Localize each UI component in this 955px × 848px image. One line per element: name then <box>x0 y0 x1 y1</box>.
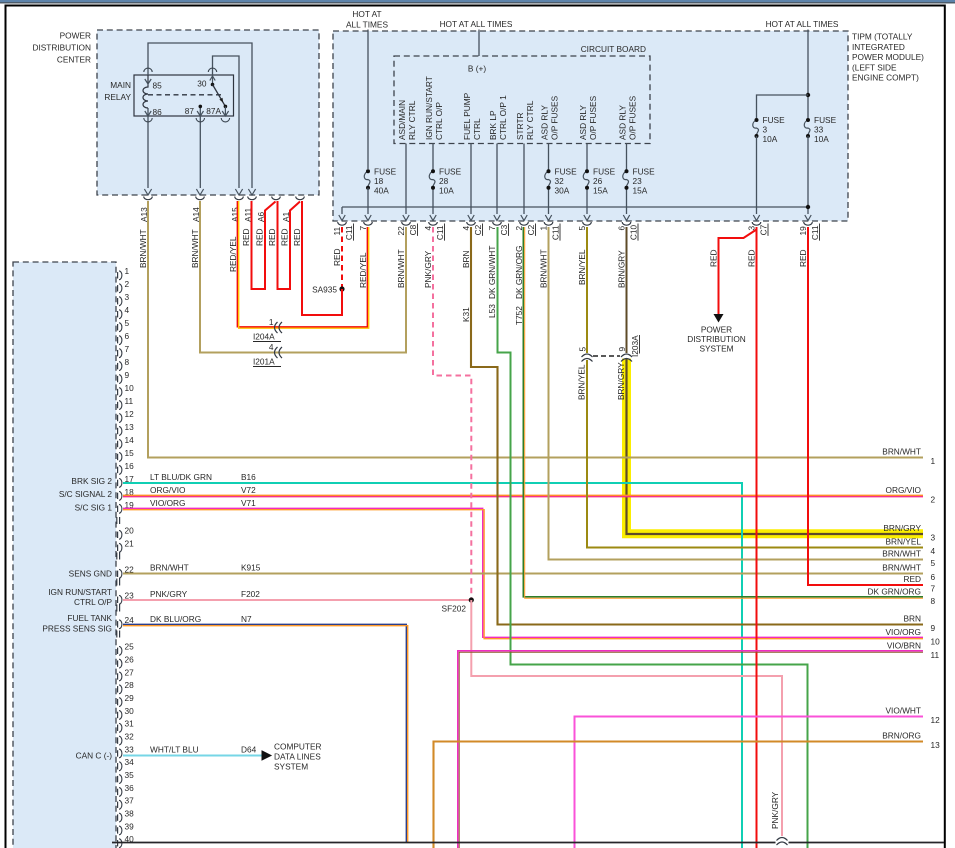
svg-text:85: 85 <box>153 81 163 91</box>
svg-text:(LEFT SIDE: (LEFT SIDE <box>852 62 897 72</box>
left connector pin 27 <box>117 673 119 679</box>
svg-text:WHT/LT BLU: WHT/LT BLU <box>150 745 199 755</box>
svg-text:V72: V72 <box>241 485 256 495</box>
main relay internal dashed link <box>148 94 222 96</box>
wire RED chain A6 <box>278 201 301 289</box>
svg-text:POWER: POWER <box>60 31 91 41</box>
svg-text:87A: 87A <box>206 106 221 116</box>
svg-text:IGN RUN/START: IGN RUN/START <box>424 76 434 140</box>
TIPM pin 7 connector C3 <box>494 215 500 221</box>
left connector pin 40 <box>117 840 119 846</box>
svg-text:PNK/GRY: PNK/GRY <box>150 589 188 599</box>
svg-text:3: 3 <box>125 292 130 302</box>
svg-text:RED/YEL: RED/YEL <box>228 236 238 272</box>
wire RED branch to power distribution system <box>719 230 757 315</box>
TIPM pin 2 connector C2 <box>521 215 527 221</box>
svg-text:STRTR: STRTR <box>515 112 525 140</box>
left connector pin 10 <box>117 389 119 395</box>
svg-text:SF202: SF202 <box>442 604 467 614</box>
svg-text:36: 36 <box>125 783 135 793</box>
svg-text:POWER: POWER <box>701 325 732 335</box>
wire A14 BRN/WHT to I201A <box>200 201 406 353</box>
splice SF202 <box>469 597 474 602</box>
svg-text:BRN/WHT: BRN/WHT <box>396 249 406 288</box>
svg-text:BRN/ORG: BRN/ORG <box>882 731 921 741</box>
svg-text:10: 10 <box>125 383 135 393</box>
PDC connector A15 <box>235 189 242 195</box>
wire relay 86 to A13 exit <box>147 108 149 188</box>
svg-text:RED: RED <box>798 249 808 267</box>
svg-text:28: 28 <box>125 680 135 690</box>
svg-text:L53: L53 <box>487 304 497 318</box>
main relay pin 87 <box>199 105 203 109</box>
svg-text:RED: RED <box>709 249 719 267</box>
wire relay 85 to A11 exit <box>148 43 252 188</box>
left connector pin 1 <box>117 272 119 278</box>
svg-text:ORG/VIO: ORG/VIO <box>886 485 922 495</box>
svg-text:PNK/GRY: PNK/GRY <box>423 250 433 288</box>
svg-text:9: 9 <box>931 623 936 633</box>
left connector pin 21 <box>117 545 119 551</box>
svg-text:VIO/ORG: VIO/ORG <box>150 498 186 508</box>
svg-text:HOT AT ALL TIMES: HOT AT ALL TIMES <box>766 19 839 29</box>
wire RED TIPM pin3 C7 to bottom <box>756 227 758 848</box>
svg-text:15A: 15A <box>633 186 648 196</box>
svg-text:C2: C2 <box>526 224 536 235</box>
svg-text:SA935: SA935 <box>312 285 337 295</box>
svg-text:13: 13 <box>931 740 941 750</box>
svg-text:INTEGRATED: INTEGRATED <box>852 42 905 52</box>
svg-text:O/P FUSES: O/P FUSES <box>588 95 598 140</box>
wire BRN/WHT TIPM pin1 C11 to edge wire 5 <box>549 227 924 560</box>
left connector pin 39 <box>117 827 119 833</box>
svg-text:10A: 10A <box>763 134 778 144</box>
svg-text:7: 7 <box>358 226 368 231</box>
svg-text:LT BLU/DK GRN: LT BLU/DK GRN <box>150 472 212 482</box>
circuit board box <box>394 56 650 144</box>
wire BRN K31 TIPM pin4 C2 to edge wire 9 <box>471 227 923 625</box>
wire relay 30 to A15 exit <box>213 56 240 188</box>
svg-text:5: 5 <box>577 226 587 231</box>
main relay pin 86 <box>144 118 152 122</box>
left connector tick marks <box>116 553 118 560</box>
svg-text:BRN/YEL: BRN/YEL <box>577 249 587 285</box>
wire fuse3 to pin 3 <box>756 136 758 214</box>
svg-text:22: 22 <box>396 226 406 236</box>
fuse 18 40A <box>364 171 370 187</box>
main relay switch blade <box>213 85 226 107</box>
fuse 32 30A <box>545 171 551 187</box>
TIPM pin 4 connector C2 <box>468 215 474 221</box>
left connector pin 8 <box>117 363 119 369</box>
left connector pin 37 <box>117 802 119 808</box>
svg-text:13: 13 <box>125 422 135 432</box>
left connector pin 16 <box>117 467 119 473</box>
svg-text:C3: C3 <box>499 224 509 235</box>
svg-text:C2: C2 <box>473 224 483 235</box>
svg-text:BRN/WHT: BRN/WHT <box>539 249 549 288</box>
left connector pin 28 <box>117 686 119 692</box>
svg-text:BRN/YEL: BRN/YEL <box>577 364 587 400</box>
left connector pin 18 <box>117 493 119 499</box>
svg-text:32: 32 <box>125 732 135 742</box>
left connector pin 3 <box>117 298 119 304</box>
svg-text:1: 1 <box>125 266 130 276</box>
svg-text:5: 5 <box>578 347 588 352</box>
svg-text:20: 20 <box>125 526 135 536</box>
svg-text:C11: C11 <box>810 225 820 240</box>
svg-text:DISTRIBUTION: DISTRIBUTION <box>32 43 91 53</box>
svg-text:11: 11 <box>125 396 134 406</box>
left connector pin 33 <box>117 750 119 756</box>
svg-text:29: 29 <box>125 693 135 703</box>
svg-text:TIPM (TOTALLY: TIPM (TOTALLY <box>852 32 913 42</box>
svg-text:ASD RLY: ASD RLY <box>618 105 628 140</box>
bus wire fuse18 to fuse33 <box>342 206 808 208</box>
svg-text:DK GRN/ORG: DK GRN/ORG <box>868 587 921 597</box>
wire fuse33 to pin 19 <box>807 136 809 214</box>
bottom PNK/GRY connector <box>777 838 788 841</box>
svg-text:12: 12 <box>125 409 135 419</box>
svg-text:BRN/YEL: BRN/YEL <box>885 537 921 547</box>
left connector pin 17 <box>117 480 119 486</box>
svg-text:18: 18 <box>374 176 384 186</box>
svg-text:6: 6 <box>617 226 627 231</box>
left connector pin 26 <box>117 660 119 666</box>
svg-text:CENTER: CENTER <box>57 55 91 65</box>
svg-text:4: 4 <box>125 305 130 315</box>
svg-text:RED: RED <box>332 248 342 266</box>
svg-text:S/C SIGNAL 2: S/C SIGNAL 2 <box>59 489 113 499</box>
svg-text:4: 4 <box>269 342 274 352</box>
svg-text:B (+): B (+) <box>468 64 486 74</box>
wire DK GRN/ORG T752 to edge wire 8 <box>523 227 923 597</box>
svg-text:FUSE: FUSE <box>763 115 786 125</box>
svg-text:VIO/ORG: VIO/ORG <box>886 627 922 637</box>
wire bus to pin 11 <box>341 207 343 214</box>
left connector pin 7 <box>117 350 119 356</box>
TIPM pin 7 <box>365 215 371 221</box>
wire RED chain A11 <box>252 201 276 289</box>
svg-text:7: 7 <box>931 584 936 594</box>
left connector pin 4 <box>117 311 119 317</box>
left connector pin 29 <box>117 699 119 705</box>
svg-text:FUEL PUMP: FUEL PUMP <box>462 92 472 140</box>
main relay K1 box <box>134 75 234 116</box>
left connector pin 30 <box>117 712 119 718</box>
wire SA935 to red chain <box>341 289 343 315</box>
svg-text:37: 37 <box>125 796 135 806</box>
left connector pin 5 <box>117 324 119 330</box>
svg-text:PNK/GRY: PNK/GRY <box>770 791 780 829</box>
svg-text:F202: F202 <box>241 589 260 599</box>
svg-text:ENGINE COMPT): ENGINE COMPT) <box>852 73 919 83</box>
svg-text:19: 19 <box>798 226 808 236</box>
svg-text:SENS GND: SENS GND <box>69 569 112 579</box>
wire VIO/WHT from bottom to edge wire 12 <box>575 717 924 848</box>
left connector pin 36 <box>117 789 119 795</box>
splice SA935 <box>339 286 344 291</box>
left connector pin 31 <box>117 725 119 731</box>
svg-text:23: 23 <box>633 176 643 186</box>
svg-text:BRN/GRY: BRN/GRY <box>617 250 627 288</box>
svg-text:SYSTEM: SYSTEM <box>699 344 733 354</box>
svg-text:25: 25 <box>125 642 135 652</box>
arrow power distribution system <box>714 314 724 323</box>
wire RED chain A1 to SA935 <box>302 201 343 315</box>
svg-text:9: 9 <box>617 347 627 352</box>
svg-text:ASD/MAIN: ASD/MAIN <box>397 100 407 140</box>
svg-text:RLY CTRL: RLY CTRL <box>407 100 417 140</box>
svg-text:39: 39 <box>125 821 135 831</box>
svg-text:BRN: BRN <box>903 614 921 624</box>
bottom module edge <box>112 842 776 844</box>
left connector pin 13 <box>117 428 119 434</box>
svg-text:FUSE: FUSE <box>555 167 578 177</box>
left connector pin 15 <box>117 454 119 460</box>
fuse 23 15A <box>623 171 629 187</box>
svg-text:30A: 30A <box>555 186 570 196</box>
left connector pin 14 <box>117 441 119 447</box>
svg-text:BRN/GRY: BRN/GRY <box>883 523 921 533</box>
svg-text:C11: C11 <box>344 225 354 240</box>
svg-text:BRN/WHT: BRN/WHT <box>882 563 921 573</box>
left connector pin 6 <box>117 337 119 343</box>
svg-text:33: 33 <box>814 125 824 135</box>
svg-text:10: 10 <box>931 637 941 647</box>
svg-text:21: 21 <box>125 539 135 549</box>
svg-text:34: 34 <box>125 757 135 767</box>
svg-text:B16: B16 <box>241 472 256 482</box>
wire VIO/BRN from bottom to edge wire 11 <box>458 651 923 848</box>
svg-text:BRK LP: BRK LP <box>488 110 498 140</box>
svg-text:IGN RUN/START: IGN RUN/START <box>48 587 112 597</box>
svg-text:RED: RED <box>255 228 265 246</box>
svg-text:ALL TIMES: ALL TIMES <box>346 20 388 30</box>
svg-text:MAIN: MAIN <box>110 80 131 90</box>
svg-text:31: 31 <box>125 719 135 729</box>
svg-text:1: 1 <box>269 317 274 327</box>
svg-text:VIO/BRN: VIO/BRN <box>887 641 921 651</box>
svg-text:40A: 40A <box>374 186 389 196</box>
svg-text:DK BLU/ORG: DK BLU/ORG <box>150 614 201 624</box>
PDC connector A1 <box>296 197 305 200</box>
inline connector I204A <box>275 322 278 333</box>
svg-text:35: 35 <box>125 770 135 780</box>
wire A15 RED/YEL to I204A to TIPM pin 7 <box>237 201 367 327</box>
fuse 3 10A <box>753 120 759 136</box>
svg-text:16: 16 <box>125 461 135 471</box>
svg-text:7: 7 <box>125 344 130 354</box>
svg-text:14: 14 <box>125 435 135 445</box>
svg-text:SYSTEM: SYSTEM <box>274 762 308 772</box>
TIPM pin 22 connector C8 <box>403 215 409 221</box>
svg-text:4: 4 <box>931 546 936 556</box>
left connector tick marks <box>116 631 118 638</box>
svg-text:BRN/WHT: BRN/WHT <box>882 549 921 559</box>
left connector tick marks <box>116 579 118 586</box>
splice SA935 feed dashed RED <box>341 227 343 289</box>
left connector pin 11 <box>117 402 119 408</box>
svg-text:BRN/WHT: BRN/WHT <box>150 563 189 573</box>
wire feed to fuse 3 <box>757 95 809 118</box>
svg-text:RED: RED <box>241 228 251 246</box>
svg-text:27: 27 <box>125 667 135 677</box>
left connector pin 19 <box>117 506 119 512</box>
TIPM pin 19 connector C11 <box>805 215 811 221</box>
svg-text:N7: N7 <box>241 614 252 624</box>
svg-text:8: 8 <box>931 596 936 606</box>
wire relay 87 to A14 exit <box>199 106 201 188</box>
main relay pin 85 <box>144 68 152 72</box>
svg-text:CTRL O/P: CTRL O/P <box>434 102 444 140</box>
svg-text:RED: RED <box>267 228 277 246</box>
fuse 28 10A <box>429 171 435 187</box>
left connector pin 34 <box>117 763 119 769</box>
svg-text:3: 3 <box>763 125 768 135</box>
TIPM pin 11 connector C11 <box>339 215 345 221</box>
wire RED TIPM pin19 C11 to edge wire 7 <box>808 227 923 585</box>
svg-text:K31: K31 <box>461 307 471 322</box>
svg-text:BRN: BRN <box>461 250 471 268</box>
wire PNK/GRY dashed from TIPM pin 4 C11 <box>433 227 471 598</box>
left connector tick marks <box>116 605 118 612</box>
wire BRN/YEL TIPM pin5 to I203A <box>586 227 588 353</box>
svg-text:6: 6 <box>125 331 130 341</box>
left connector tick marks <box>116 517 118 524</box>
svg-text:87: 87 <box>185 106 195 116</box>
svg-text:33: 33 <box>125 744 135 754</box>
svg-text:11: 11 <box>332 227 342 236</box>
svg-text:COMPUTER: COMPUTER <box>274 742 321 752</box>
svg-text:26: 26 <box>125 655 135 665</box>
left connector pin 9 <box>117 376 119 382</box>
svg-text:CTRL: CTRL <box>472 118 482 140</box>
svg-text:32: 32 <box>555 176 565 186</box>
left connector pin 24 <box>117 621 119 627</box>
browser chrome top bar <box>0 0 955 2</box>
left connector pin 23 <box>117 597 119 603</box>
wire PNK/GRY splice to bottom connector <box>471 600 782 836</box>
svg-text:RED: RED <box>280 228 290 246</box>
svg-text:28: 28 <box>439 176 449 186</box>
left connector pin 12 <box>117 415 119 421</box>
left body control module connector box <box>13 262 116 848</box>
svg-text:RED: RED <box>903 574 921 584</box>
TIPM pin 5 <box>584 215 590 221</box>
svg-text:BRN/WHT: BRN/WHT <box>882 447 921 457</box>
svg-text:2: 2 <box>931 495 936 505</box>
svg-text:FUSE: FUSE <box>374 167 397 177</box>
svg-text:15A: 15A <box>593 186 608 196</box>
svg-text:HOT AT: HOT AT <box>352 9 381 19</box>
svg-text:DATA LINES: DATA LINES <box>274 752 321 762</box>
svg-text:10A: 10A <box>439 186 454 196</box>
svg-text:CAN C (-): CAN C (-) <box>76 751 113 761</box>
svg-text:3: 3 <box>931 533 936 543</box>
svg-text:11: 11 <box>931 650 940 660</box>
svg-text:30: 30 <box>197 79 207 89</box>
svg-text:O/P FUSES: O/P FUSES <box>550 95 560 140</box>
TIPM pin 6 connector C10 <box>623 215 629 221</box>
svg-text:FUSE: FUSE <box>439 167 462 177</box>
svg-text:CIRCUIT BOARD: CIRCUIT BOARD <box>581 44 646 54</box>
fuse 33 10A <box>804 120 810 136</box>
svg-text:12: 12 <box>931 715 941 725</box>
svg-text:FUSE: FUSE <box>633 167 656 177</box>
wire BRN/YEL I203A to edge wire 4 <box>587 360 923 548</box>
svg-text:FUSE: FUSE <box>593 167 616 177</box>
svg-text:1: 1 <box>931 456 936 466</box>
highlighted wire BRN/GRY I203A to edge wire 3 <box>627 359 924 534</box>
TIPM pin 4 connector C11 <box>430 215 436 221</box>
svg-text:BRN/WHT: BRN/WHT <box>190 229 200 268</box>
svg-text:RED/YEL: RED/YEL <box>358 252 368 288</box>
svg-text:DISTRIBUTION: DISTRIBUTION <box>687 334 746 344</box>
svg-text:4: 4 <box>423 226 433 231</box>
svg-text:C11: C11 <box>551 225 561 240</box>
svg-text:1: 1 <box>539 226 549 231</box>
power distribution center box <box>97 30 319 195</box>
svg-text:C8: C8 <box>408 224 418 235</box>
svg-text:RELAY: RELAY <box>104 92 131 102</box>
PDC connector A14 <box>196 189 203 195</box>
left connector pin 38 <box>117 814 119 820</box>
svg-text:VIO/WHT: VIO/WHT <box>886 706 922 716</box>
svg-text:DK GRN/WHT: DK GRN/WHT <box>487 246 497 299</box>
svg-text:C10: C10 <box>629 224 639 240</box>
svg-text:FUEL TANK: FUEL TANK <box>67 613 112 623</box>
svg-text:BRK SIG 2: BRK SIG 2 <box>71 476 112 486</box>
svg-text:PRESS SENS SIG: PRESS SENS SIG <box>42 624 112 634</box>
svg-text:K915: K915 <box>241 563 261 573</box>
svg-text:I201A: I201A <box>253 357 275 367</box>
svg-text:5: 5 <box>125 318 130 328</box>
inline connector I203A <box>582 354 593 357</box>
svg-text:10A: 10A <box>814 134 829 144</box>
svg-text:RED: RED <box>292 228 302 246</box>
svg-text:BRN/WHT: BRN/WHT <box>138 229 148 268</box>
PDC connector A13 <box>144 189 151 195</box>
svg-text:15: 15 <box>125 448 135 458</box>
svg-text:ASD RLY: ASD RLY <box>578 105 588 140</box>
right feed junction <box>806 93 810 97</box>
svg-text:V71: V71 <box>241 498 256 508</box>
PDC connector A11 <box>248 189 255 195</box>
svg-text:9: 9 <box>125 370 130 380</box>
svg-text:ORG/VIO: ORG/VIO <box>150 485 186 495</box>
svg-text:CTRL O/P: CTRL O/P <box>74 597 112 607</box>
svg-text:C7: C7 <box>759 224 769 235</box>
wire A13 BRN/WHT to right edge wire 1 <box>148 201 923 458</box>
main relay pin 30 <box>208 68 216 72</box>
TIPM pin 1 connector C11 <box>545 215 551 221</box>
svg-text:4: 4 <box>461 226 471 231</box>
svg-text:D64: D64 <box>241 745 257 755</box>
svg-text:38: 38 <box>125 808 135 818</box>
TIPM pin 3 connector C7 <box>753 215 759 221</box>
main relay coil <box>143 75 148 108</box>
left connector pin 20 <box>117 532 119 538</box>
svg-text:I203A: I203A <box>630 335 640 357</box>
svg-text:POWER MODULE): POWER MODULE) <box>852 52 924 62</box>
PDC connector A6 <box>272 197 281 200</box>
svg-text:6: 6 <box>931 572 936 582</box>
wire BRN/ORG from bottom to edge wire 13 <box>434 742 924 848</box>
TIPM box <box>333 31 848 221</box>
svg-text:ASD RLY: ASD RLY <box>540 105 550 140</box>
svg-text:30: 30 <box>125 706 135 716</box>
